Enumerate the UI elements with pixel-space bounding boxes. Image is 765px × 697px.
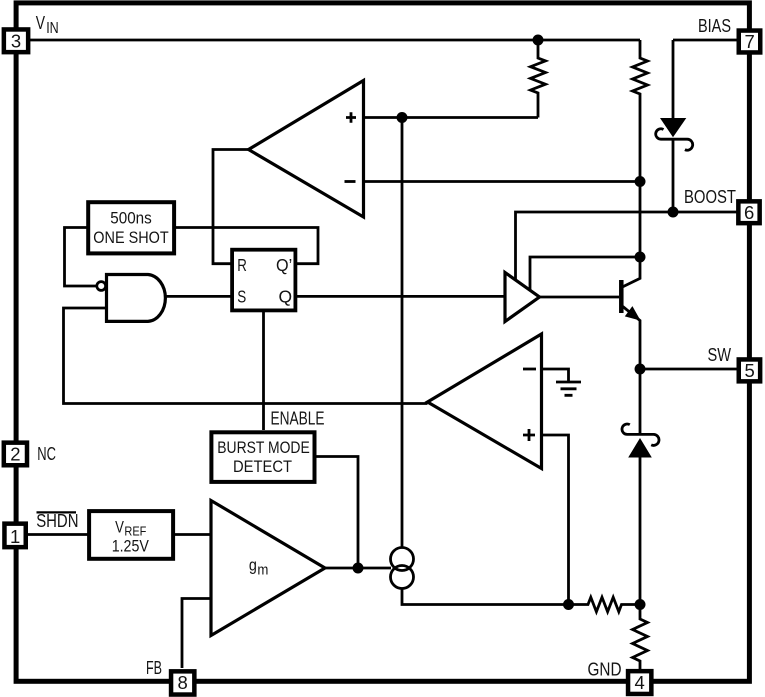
node junction gm output [353,563,364,574]
plus label A2 [523,429,535,441]
node junction A1- and R2 [635,176,646,187]
node junction VIN-R1 [533,35,544,46]
comparator A1 [249,81,364,218]
svg-text:5: 5 [744,360,754,381]
wire latch Q' to one-shot input [176,228,318,264]
wire A2 - input to ground [542,369,569,382]
svg-text:2: 2 [10,443,20,464]
pin 5 SW [739,359,760,381]
wire SHDN pin to VREF [28,533,90,536]
svg-text:BURST MODE: BURST MODE [217,438,310,457]
resistor R4 gnd [633,605,648,670]
svg-text:4: 4 [635,672,645,693]
wire current source to sense node [402,589,569,605]
minus label A1 [345,180,356,183]
wire comparator A1 + input to R1 bottom [364,116,539,119]
node junction sense right [635,599,646,610]
node junction BOOST [668,207,679,218]
resistor R3 sense [569,597,641,611]
label BOOST [684,187,736,207]
wire NAND output to latch S input [166,295,231,298]
diode D1 zener BIAS-BOOST [656,40,693,212]
svg-text:1: 1 [10,526,20,547]
wire BIAS pin [673,39,738,42]
svg-text:g: g [249,555,257,574]
label NC [37,444,56,464]
pin 4 GND [628,671,651,694]
label SHDN with overline [36,511,78,531]
wire latch Q to driver input [297,295,505,298]
driver buffer U4 [505,273,540,322]
wire gm output [325,567,391,570]
svg-text:V: V [36,12,46,33]
wire collector node to driver supply [530,257,640,291]
wire A2 + input to sense node [542,435,569,605]
wire latch enable to burst detect [262,312,265,430]
burst mode detect U5 box [211,432,314,482]
minus label A2 [523,368,536,371]
VREF box [89,511,173,559]
svg-text:BOOST: BOOST [684,187,736,207]
svg-text:DETECT: DETECT [233,457,292,476]
svg-text:ONE SHOT: ONE SHOT [93,228,168,247]
pin 8 FB [171,671,194,694]
wire VREF to gm + input [175,533,212,536]
wire VIN rail [29,39,641,42]
plus label A1 [346,112,356,123]
label SW [708,345,732,365]
current source I1 [391,548,414,589]
svg-text:REF: REF [124,524,146,539]
wire current source feed vertical [401,118,404,549]
wire driver output to Q1 base [540,296,620,299]
node junction sense left [563,599,574,610]
pin 6 BOOST [738,201,759,223]
svg-text:1.25V: 1.25V [112,538,149,556]
svg-text:GND: GND [588,659,622,679]
svg-text:SW: SW [708,345,732,365]
wire BOOST to driver supply [516,212,738,281]
svg-text:SHDN: SHDN [36,511,78,531]
wire burst detect to gm output [317,457,359,569]
transistor Q1 [621,257,640,369]
svg-text:6: 6 [744,202,754,223]
svg-text:FB: FB [146,658,162,678]
resistor R1 [531,40,546,118]
ground symbol [556,382,581,395]
svg-text:m: m [257,562,268,579]
svg-text:Q: Q [279,286,293,306]
label FB [146,658,162,678]
pin 3 VIN [4,29,28,52]
one-shot U1 box [88,202,174,253]
node junction A1+ sense line [397,112,408,123]
error amp gm [211,501,325,636]
svg-text:ENABLE: ENABLE [271,409,325,429]
svg-text:R: R [237,255,247,275]
svg-text:500ns: 500ns [110,209,152,228]
wire SW node to pin [640,368,738,371]
svg-text:V: V [115,518,124,537]
wire one-shot output to NAND bubble [65,228,97,287]
wire comparator A2 output to NAND input [64,308,428,404]
label VIN [36,12,59,37]
pin 7 BIAS [739,31,761,53]
node junction collector [635,252,646,263]
svg-text:8: 8 [178,672,188,693]
diode D2 schottky SW-GND [622,369,659,605]
pin 1 SHDN [4,524,25,548]
NAND gate U2 [97,275,166,322]
wire A1 output to latch R input [213,150,249,264]
label ENABLE [271,409,325,429]
label BIAS [698,16,731,36]
node junction SW [635,364,646,375]
label GND [588,659,622,679]
svg-text:NC: NC [37,444,56,464]
svg-text:S: S [237,286,246,306]
svg-text:Q’: Q’ [276,255,292,275]
svg-text:3: 3 [11,31,21,52]
svg-text:7: 7 [744,31,754,52]
wire comparator A1 - input [364,180,641,183]
pin 2 NC [4,443,27,466]
resistor R2 [633,40,648,257]
comparator A2 [428,334,542,469]
latch U3 box [232,250,295,311]
svg-text:IN: IN [46,20,59,37]
wire FB pin to gm - input [182,599,211,669]
svg-text:BIAS: BIAS [698,16,731,36]
